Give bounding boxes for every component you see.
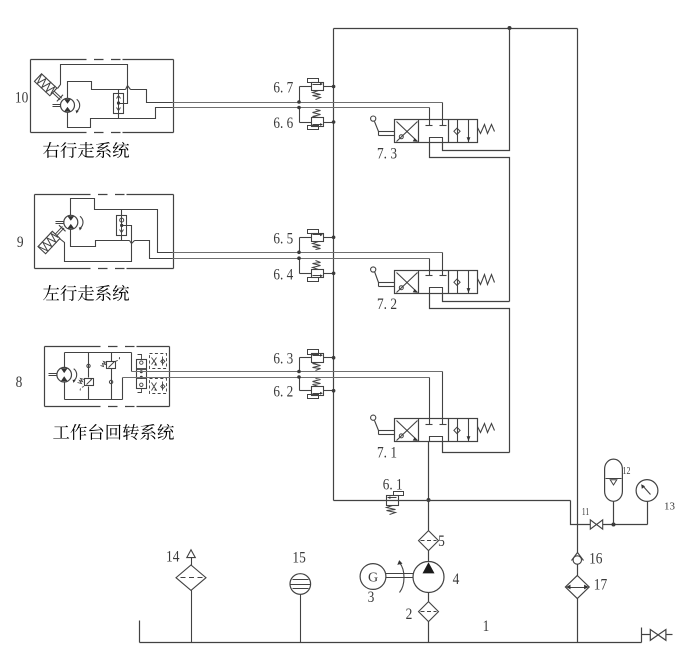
svg-text:14: 14 (166, 549, 179, 566)
wire: 7.1 T return (443, 442, 510, 453)
svg-text:G: G (368, 571, 378, 586)
relief valve 6.6 (312, 118, 324, 127)
check valve 16 (572, 553, 578, 561)
motor M10 (61, 98, 75, 112)
wire: 7.1 port stubs (442, 372, 444, 419)
svg-text:6. 5: 6. 5 (273, 230, 293, 247)
wire: work line pair lower y=258.2 (173, 258, 430, 260)
level gauge 15 (290, 574, 311, 595)
wire: 7.3 port stubs (442, 103, 444, 120)
wire: box9 internal upper (71, 199, 173, 253)
wire: top return line (334, 28, 578, 30)
wire: box9 shuttle spans lines (121, 210, 123, 216)
svg-text:13: 13 (664, 501, 676, 513)
wire: 7.3 P feed chain (430, 143, 510, 302)
shuttle valve S10 (114, 94, 124, 114)
wire: tank line 1 (140, 642, 642, 644)
shaft (386, 573, 414, 575)
svg-text:15: 15 (292, 550, 305, 567)
pilot check block PC8a (150, 354, 167, 369)
wire: box10 internal upper (68, 82, 126, 99)
svg-text:3: 3 (368, 589, 375, 606)
label: left travel system (43, 285, 59, 300)
directional valve 7.1 (395, 419, 478, 442)
counterbalance stack CB8 (137, 360, 147, 389)
wire: box10 internal lower (68, 108, 173, 128)
wire: box9 brake pilot (60, 226, 132, 262)
relief valve 6.7 (312, 83, 324, 91)
breather 14 (176, 565, 206, 590)
svg-text:6. 7: 6. 7 (273, 80, 293, 97)
relief valve 6.4 (312, 270, 324, 278)
wire: left bus vertical (333, 29, 335, 501)
svg-text:4: 4 (453, 571, 460, 588)
wire: pump outlet manifold y=500 (334, 500, 571, 502)
wire: work line pair upper y=371.5 (132, 371, 443, 373)
relief valve 6.1 (387, 496, 399, 506)
svg-text:12: 12 (623, 465, 631, 477)
label: right travel system (43, 142, 59, 158)
pilot check block PC8b (150, 379, 167, 394)
filter 2 (419, 602, 439, 622)
subsystem box 10 right-travel (30, 60, 32, 133)
svg-text:9: 9 (17, 234, 24, 251)
svg-text:1: 1 (483, 618, 490, 635)
relief valve 6.5 (312, 234, 324, 242)
wire: box10 brake pilot (58, 65, 128, 104)
subsystem box 9 left-travel (34, 195, 36, 269)
svg-text:7. 1: 7. 1 (377, 444, 397, 461)
pressure gauge 13 (636, 480, 658, 502)
svg-text:8: 8 (16, 374, 23, 391)
node: accumulator junction (612, 523, 616, 527)
relief valve RV8b (107, 362, 116, 369)
motor M8 (57, 367, 72, 382)
wire: work line pair lower y=377.0 (123, 377, 430, 379)
wire: drain valve stub (641, 628, 643, 643)
wire: work line pair lower y=107.5 (173, 107, 430, 109)
wire: box9 internal lower (71, 230, 130, 247)
svg-text:7. 3: 7. 3 (377, 145, 397, 162)
wire: 7.2 P chain (430, 294, 510, 453)
svg-text:16: 16 (589, 551, 602, 568)
svg-text:6. 4: 6. 4 (273, 266, 293, 283)
relief valve 6.3 (312, 354, 324, 363)
pump 4 (413, 562, 444, 593)
node: top junction (508, 26, 512, 30)
brake cylinder B10 (34, 74, 64, 103)
svg-text:10: 10 (15, 89, 28, 106)
wire: right return bus vertical (577, 29, 579, 553)
svg-text:11: 11 (582, 506, 590, 518)
node: pressure line junction (427, 498, 431, 502)
directional valve 7.2 (395, 271, 478, 294)
svg-text:2: 2 (406, 606, 413, 623)
svg-text:17: 17 (594, 576, 607, 593)
wire: box8 rails (64, 353, 66, 368)
wire: pump pressure line (428, 442, 430, 531)
svg-text:5: 5 (438, 533, 445, 550)
shuttle valve S9 (117, 216, 127, 236)
wire: work line pair upper y=252.3 (173, 252, 443, 254)
directional valve 7.3 (395, 120, 478, 143)
svg-text:6. 2: 6. 2 (273, 384, 293, 401)
wire: accumulator branch (571, 501, 591, 525)
wire: 7.2 T return (443, 294, 510, 302)
svg-text:7. 2: 7. 2 (377, 296, 397, 313)
brake cylinder B9 (38, 224, 67, 254)
svg-text:6. 6: 6. 6 (273, 115, 293, 132)
label: worktable rotation system (53, 425, 69, 438)
motor 3 (electric, G) (360, 564, 386, 590)
motor M9 (64, 215, 78, 229)
relief valve RV8a (85, 379, 94, 386)
shut-off valve 11 (590, 520, 596, 529)
valve: drain shut-off valve (650, 630, 658, 641)
accumulator 12 (605, 459, 623, 501)
wire: 7.2 port stubs (442, 253, 444, 271)
cooler 17 (565, 576, 589, 599)
relief valve 6.2 (312, 387, 324, 396)
wire: 7.3 T return (443, 29, 510, 151)
wire: box10 shuttle spans lines (118, 90, 120, 94)
svg-text:6. 1: 6. 1 (383, 477, 403, 494)
wire: work line pair upper y=102.0 (173, 102, 443, 104)
svg-text:6. 3: 6. 3 (273, 351, 293, 368)
subsystem box 8 worktable-rotation (44, 347, 46, 407)
filter 5 (419, 531, 439, 551)
